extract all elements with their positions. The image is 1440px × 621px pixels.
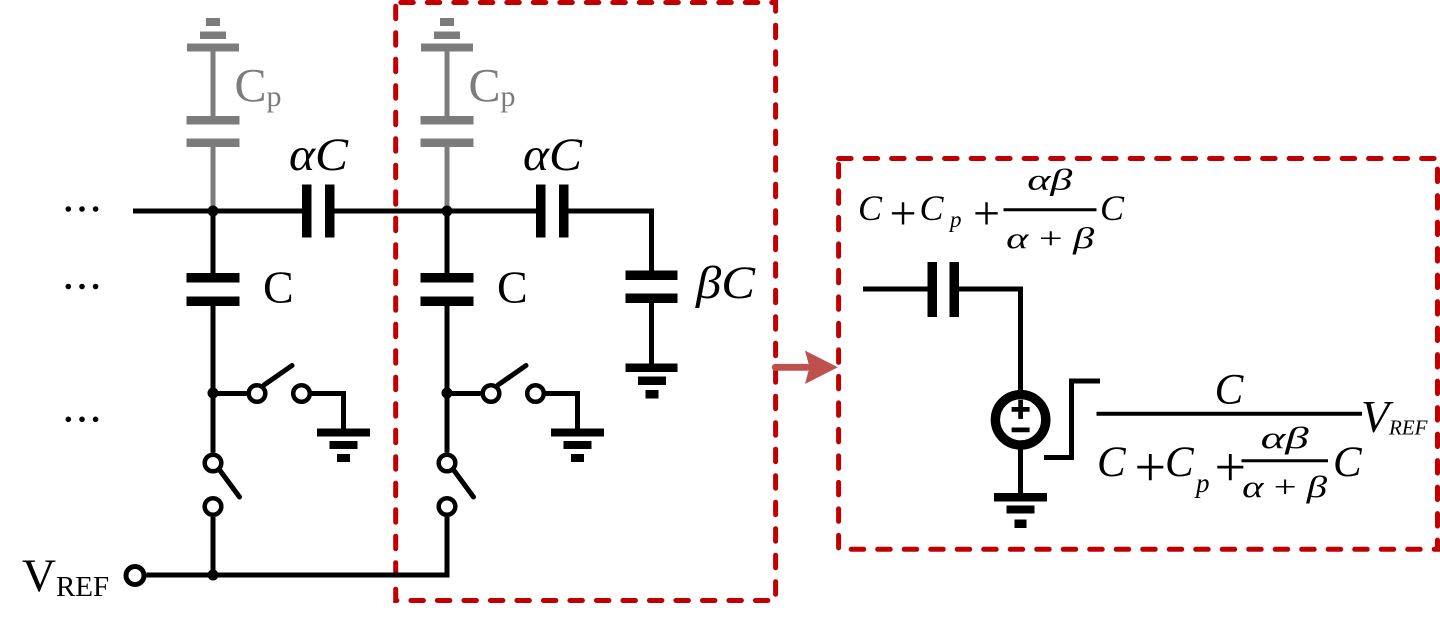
svg-text:C: C — [1165, 439, 1195, 486]
formula C + Cp + ab/(a+b) C (top) — [858, 164, 1125, 256]
svg-text:Cp: Cp — [469, 60, 516, 114]
wire node to capacitor C (cell 1) — [211, 211, 216, 273]
wire switch to ground (cell 2) — [544, 394, 578, 429]
wire VREF switch to bottom bus (cell 2) — [445, 517, 450, 578]
dashed box around equivalent circuit (right) — [839, 159, 1438, 550]
svg-text:C: C — [1097, 439, 1127, 486]
svg-text:C: C — [920, 188, 945, 228]
parasitic rail bars (inverted ground) cell 2 — [421, 18, 473, 52]
node dot top (cell 2) — [442, 206, 453, 217]
svg-text:αβ: αβ — [1261, 420, 1310, 455]
capacitor C (cell 1) — [187, 273, 240, 306]
big formula: denominator C + Cp + ab/(a+b) C — [1097, 420, 1363, 504]
svg-text:C: C — [1100, 188, 1125, 228]
parasitic rail bars (inverted ground) cell 1 — [187, 18, 239, 52]
ground symbol (cell 1 switch) — [317, 429, 370, 463]
wire node to VREF switch (cell 1) — [211, 393, 216, 453]
equivalent capacitor — [928, 262, 960, 317]
capacitor betaC — [626, 271, 678, 304]
capacitor alphaC (cell 1) — [302, 185, 335, 238]
grounding switch (cell 1) — [249, 366, 310, 402]
voltage source — [995, 395, 1045, 445]
node ellipsis row (top bus) — [66, 206, 99, 212]
svg-text:C: C — [1333, 439, 1363, 486]
ground symbol (betaC) — [626, 364, 678, 399]
wire source to ground — [1018, 446, 1023, 494]
wire capacitor to source — [959, 289, 1021, 391]
capacitor C (cell 2) — [421, 273, 474, 306]
dashed highlight box around unit cell (left) — [396, 3, 776, 601]
wire betaC to ground — [649, 303, 654, 364]
node ellipsis row (switch level) — [66, 417, 99, 423]
svg-text:p: p — [948, 207, 962, 232]
svg-text:Cp: Cp — [235, 60, 282, 114]
svg-text:βC: βC — [695, 257, 756, 309]
switch node dot (cell 1) — [208, 388, 219, 399]
bottom bus wire (VREF) — [147, 573, 450, 578]
wire node to VREF switch (cell 2) — [445, 393, 450, 453]
parasitic capacitor Cp (cell 1) — [187, 52, 240, 212]
parasitic capacitor Cp (cell 2) — [421, 52, 474, 212]
small fraction bar (denominator) — [1242, 459, 1329, 462]
svg-text:αC: αC — [289, 129, 349, 181]
big formula: main fraction bar — [1097, 412, 1363, 416]
top bus wire — [133, 209, 652, 271]
grounding switch (cell 2) — [483, 366, 544, 402]
svg-text:α + β: α + β — [1006, 222, 1094, 255]
bracket connector — [1044, 381, 1100, 458]
svg-text:+: + — [890, 187, 917, 240]
ground symbol (cell 2 switch) — [551, 429, 604, 463]
junction dot on VREF bus — [208, 570, 219, 581]
wire switch to ground (cell 1) — [310, 394, 344, 429]
arrow from cell to equivalent circuit — [772, 351, 838, 384]
svg-text:REF: REF — [1388, 416, 1428, 440]
minus sign in source — [1012, 428, 1030, 433]
switch node dot (cell 2) — [442, 388, 453, 399]
node ellipsis row (capacitor level) — [66, 284, 99, 290]
svg-text:+: + — [973, 187, 1000, 240]
VREF terminal — [126, 567, 144, 585]
svg-text:C: C — [858, 188, 883, 228]
wire node to capacitor C (cell 2) — [445, 211, 450, 273]
svg-text:p: p — [1194, 468, 1210, 498]
wire node to grounding switch (cell 1) — [213, 391, 247, 396]
ground symbol (equivalent circuit) — [994, 493, 1047, 528]
VREF switch (cell 1) — [205, 455, 240, 515]
svg-text:C: C — [263, 262, 294, 313]
svg-text:C: C — [497, 262, 528, 313]
wire VREF switch to bottom bus (cell 1) — [211, 517, 216, 577]
VREF switch (cell 2) — [439, 455, 474, 515]
plus sign in source — [1012, 400, 1030, 419]
wire node to grounding switch (cell 2) — [447, 391, 481, 396]
svg-text:α + β: α + β — [1242, 469, 1328, 504]
svg-text:αβ: αβ — [1027, 164, 1072, 197]
fraction bar (top formula) — [1004, 208, 1097, 211]
wire capacitor C to switch node (cell 1) — [211, 306, 216, 393]
wire into equivalent capacitor — [863, 287, 928, 292]
node dot top (cell 1) — [208, 206, 219, 217]
svg-text:VREF: VREF — [22, 550, 109, 603]
svg-text:αC: αC — [523, 129, 583, 181]
wire capacitor C to switch node (cell 2) — [445, 306, 450, 393]
svg-text:+: + — [1135, 437, 1167, 499]
svg-text:C: C — [1215, 367, 1245, 414]
capacitor alphaC (cell 2) — [536, 185, 569, 238]
